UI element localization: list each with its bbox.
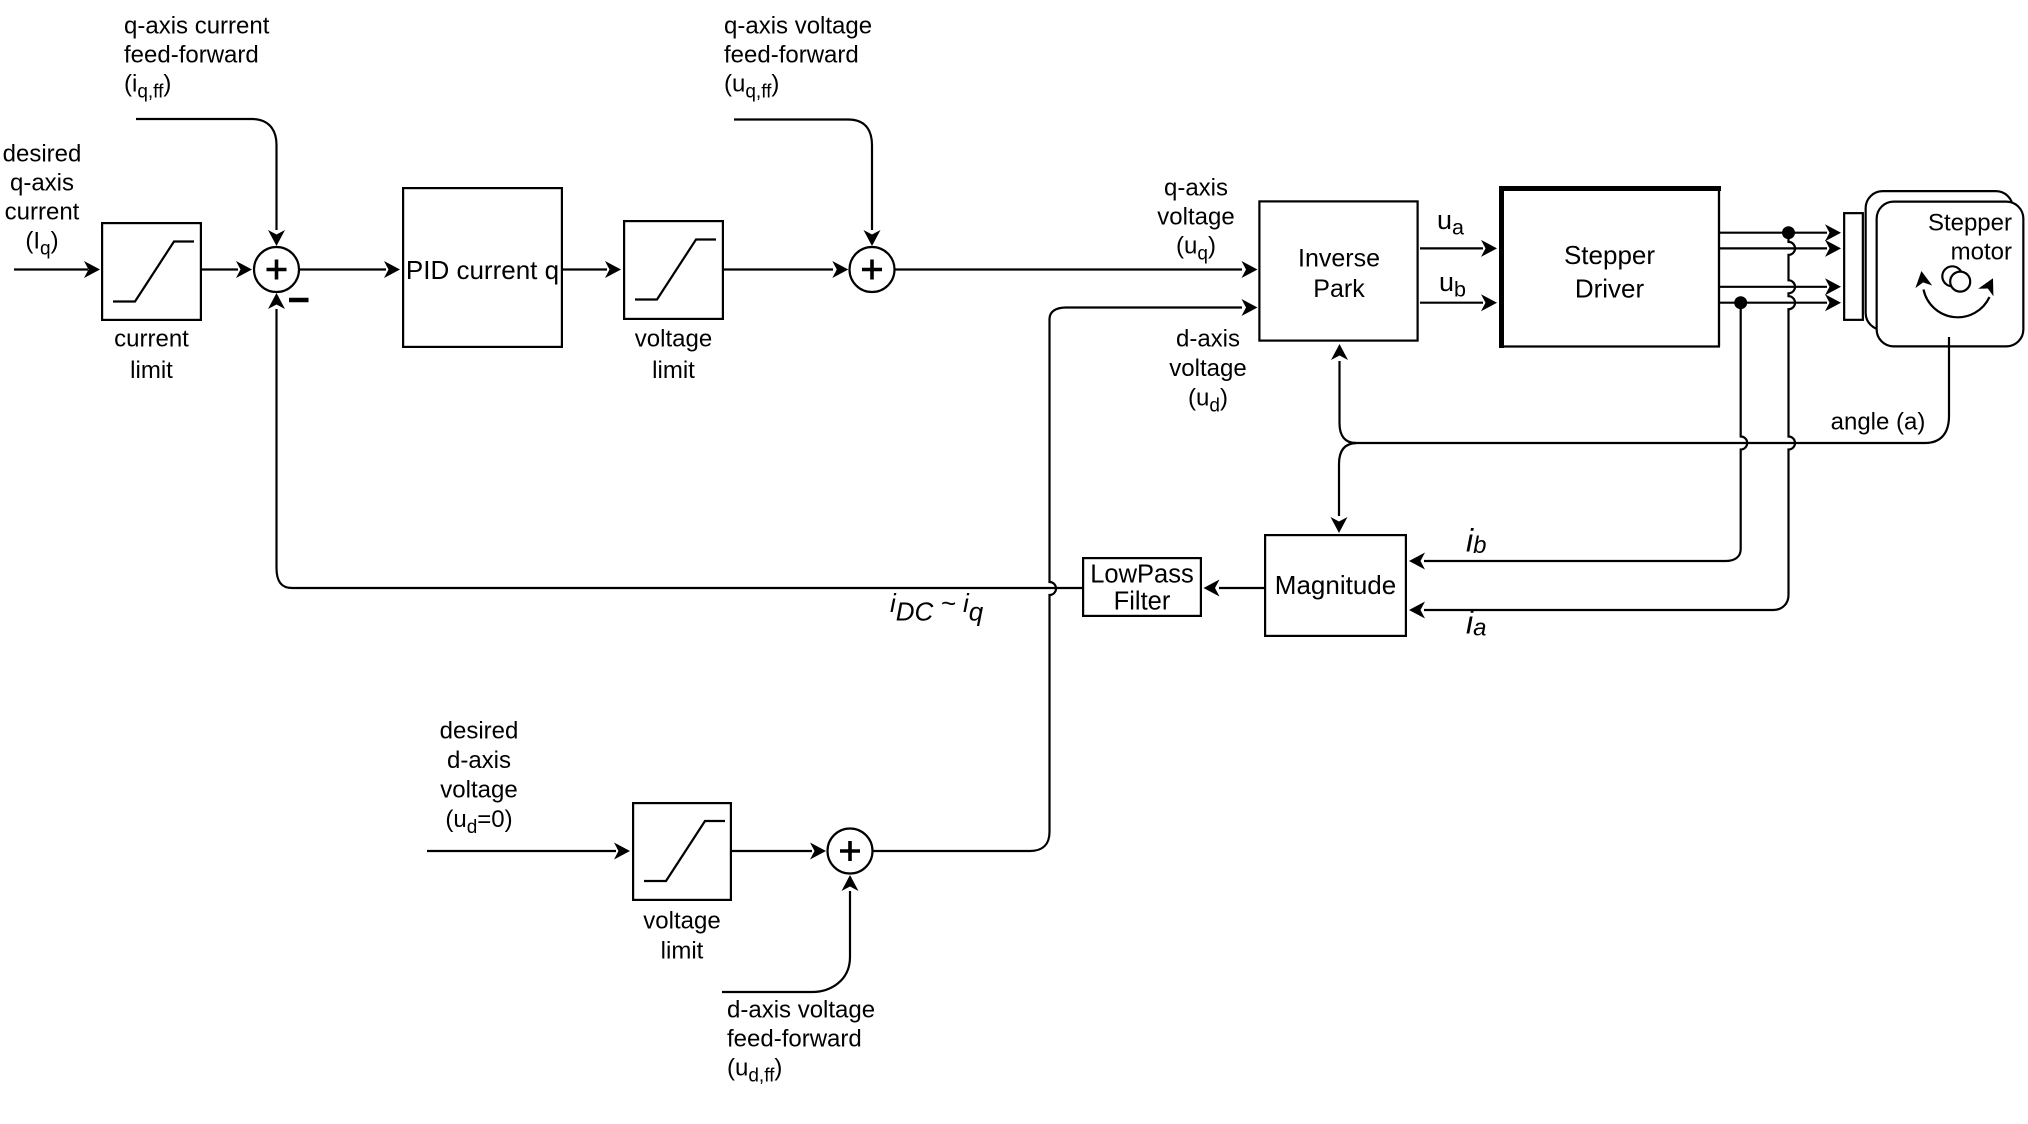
svg-text:d-axis: d-axis <box>1176 326 1240 353</box>
arrowhead into sum1 left <box>236 261 252 278</box>
svg-text:desired: desired <box>440 718 519 745</box>
svg-text:voltage: voltage <box>635 326 712 353</box>
motor rotation arc <box>1924 290 1990 318</box>
arrowhead into current limit <box>84 261 100 278</box>
wire: PID to voltage limit <box>563 268 607 270</box>
wire: i_b from line 4 dot down to Magnitude (hops over angle line) <box>1424 303 1747 561</box>
label: d-axis voltage (u_d) <box>1169 326 1246 417</box>
wire: d-axis voltage from sum3 up into Inverse Park input 2 (with hop) <box>873 308 1243 852</box>
svg-text:Park: Park <box>1313 275 1365 303</box>
wire: sum1 to PID <box>299 268 387 270</box>
wire: q-axis voltage feed-forward into sum2 <box>734 120 872 231</box>
arrowhead into sum1 top <box>268 230 285 246</box>
label: d-axis voltage feed-forward (u_d,ff) <box>727 997 875 1087</box>
wire: driver output line 1 <box>1720 232 1827 234</box>
block: Magnitude <box>1265 535 1406 636</box>
block: Inverse Park <box>1259 201 1417 340</box>
junction dot on line 4 <box>1734 296 1747 309</box>
arrowhead into LowPass Filter <box>1204 580 1220 597</box>
summing junction sum1 <box>254 247 299 292</box>
wire: q-axis current feed-forward into sum1 <box>136 119 277 230</box>
arrowhead into sum2 top <box>864 230 881 246</box>
svg-text:feed-forward: feed-forward <box>727 1026 862 1053</box>
junction dot on line 1 <box>1782 226 1795 239</box>
svg-text:voltage: voltage <box>643 908 720 935</box>
wire: driver output line 2 <box>1720 247 1827 249</box>
wire: Magnitude to LowPass Filter <box>1219 587 1264 589</box>
svg-text:motor: motor <box>1951 239 2012 266</box>
block: voltage limit (saturation) upper <box>624 221 723 319</box>
label: q-axis voltage feed-forward (u_q,ff) <box>724 13 872 103</box>
arrowhead u_a into Stepper Driver <box>1481 240 1497 257</box>
block: Stepper Driver (thick top/left border) <box>1502 189 1720 347</box>
svg-text:PID current q: PID current q <box>406 255 559 285</box>
svg-text:q-axis current: q-axis current <box>124 13 270 40</box>
svg-text:q-axis: q-axis <box>1164 175 1228 202</box>
stepper motor front plate <box>1877 202 2024 347</box>
svg-text:current: current <box>114 326 189 353</box>
saturation curve <box>113 242 194 302</box>
svg-text:voltage: voltage <box>440 777 517 804</box>
block: LowPass Filter <box>1083 558 1201 616</box>
wire: i_DC feedback from LowPass Filter to sum1 bottom <box>277 309 1083 588</box>
wire: i_a from line 1 dot down to Magnitude (hops over lines 2,3,4 and angle line) <box>1424 233 1795 610</box>
arrowhead line 2 into motor <box>1825 240 1841 257</box>
arrowhead feedback into sum1 bottom <box>268 293 285 309</box>
svg-text:limit: limit <box>130 357 173 384</box>
stepper motor back plate <box>1866 191 2013 330</box>
motor shaft circles <box>1942 266 1962 286</box>
svg-text:LowPass: LowPass <box>1090 561 1193 589</box>
arrowhead into sum3 bottom <box>842 875 859 891</box>
label: q-axis voltage (u_q) <box>1157 175 1234 265</box>
svg-text:feed-forward: feed-forward <box>724 42 859 69</box>
arrowhead into voltage limit <box>605 261 621 278</box>
summing junction sum2 <box>850 247 895 292</box>
svg-text:Driver: Driver <box>1575 274 1645 304</box>
svg-text:angle (a): angle (a) <box>1831 409 1926 436</box>
wire: driver output line 4 <box>1720 302 1827 304</box>
summing junction sum3 <box>828 829 873 874</box>
svg-text:voltage: voltage <box>1169 355 1246 382</box>
arrowhead into sum3 left <box>810 843 826 860</box>
arrowhead angle into Magnitude top <box>1331 517 1348 533</box>
wire: u_a from Inverse Park to Stepper Driver <box>1420 247 1483 249</box>
arrowhead into Inverse Park input 2 <box>1242 299 1258 316</box>
wire: voltage limit to sum2 <box>724 268 833 270</box>
svg-text:voltage: voltage <box>1157 204 1234 231</box>
arrowhead line 4 into motor <box>1825 294 1841 311</box>
wire: angle branch down to Magnitude <box>1339 443 1356 516</box>
svg-text:Magnitude: Magnitude <box>1275 570 1396 600</box>
arrowhead u_b into Stepper Driver <box>1481 294 1497 311</box>
svg-text:limit: limit <box>652 357 695 384</box>
arrowhead i_a into Magnitude <box>1409 602 1425 619</box>
arrowhead line 1 into motor <box>1825 224 1841 241</box>
rotation arc right arrowhead <box>1978 278 1993 296</box>
wire: driver output line 3 <box>1720 286 1827 288</box>
arrowhead into PID <box>384 261 400 278</box>
block: current limit (saturation) <box>102 223 201 320</box>
arrowhead into Inverse Park input 1 <box>1242 261 1258 278</box>
svg-text:d-axis: d-axis <box>447 747 511 774</box>
label: desired d-axis voltage (u_d=0) <box>440 718 519 839</box>
rotation arc left arrowhead <box>1915 271 1932 288</box>
arrowhead into voltage limit lower <box>614 843 630 860</box>
svg-text:Filter: Filter <box>1114 588 1171 616</box>
svg-text:Stepper: Stepper <box>1928 210 2012 237</box>
wire: angle branch up to Inverse Park <box>1340 361 1357 443</box>
minus sign at sum1 <box>289 298 309 303</box>
label: q-axis current feed-forward (i_q,ff) <box>124 13 270 103</box>
arrowhead into sum2 left <box>832 261 848 278</box>
svg-text:Inverse: Inverse <box>1298 245 1380 273</box>
wire: d-axis voltage feed-forward into sum3 <box>722 891 850 992</box>
svg-text:q-axis: q-axis <box>10 170 74 197</box>
svg-text:d-axis voltage: d-axis voltage <box>727 997 875 1024</box>
label: desired q-axis current (I_q) <box>3 141 82 260</box>
wire: angle from motor bottom to tee <box>1350 337 1949 443</box>
wire: voltage limit lower to sum3 <box>732 850 812 852</box>
wire: u_b from Inverse Park to Stepper Driver <box>1420 302 1483 304</box>
arrowhead line 3 into motor <box>1825 278 1841 295</box>
svg-text:desired: desired <box>3 141 82 168</box>
wire: desired q-axis current input <box>14 268 88 270</box>
svg-text:feed-forward: feed-forward <box>124 42 259 69</box>
block: voltage limit (saturation) lower <box>633 803 731 900</box>
svg-text:Stepper: Stepper <box>1564 240 1655 270</box>
svg-text:q-axis voltage: q-axis voltage <box>724 13 872 40</box>
block: PID current q <box>403 188 562 347</box>
wire: current limit to sum1 <box>202 268 238 270</box>
svg-text:current: current <box>5 199 80 226</box>
wire: sum2 to Inverse Park input 1 <box>894 268 1242 270</box>
wire: desired d-axis voltage input <box>427 850 616 852</box>
arrowhead angle into Inverse Park bottom <box>1331 344 1348 360</box>
arrowhead i_b into Magnitude <box>1409 553 1425 570</box>
svg-text:limit: limit <box>661 938 704 965</box>
terminal block of stepper motor <box>1844 213 1863 320</box>
